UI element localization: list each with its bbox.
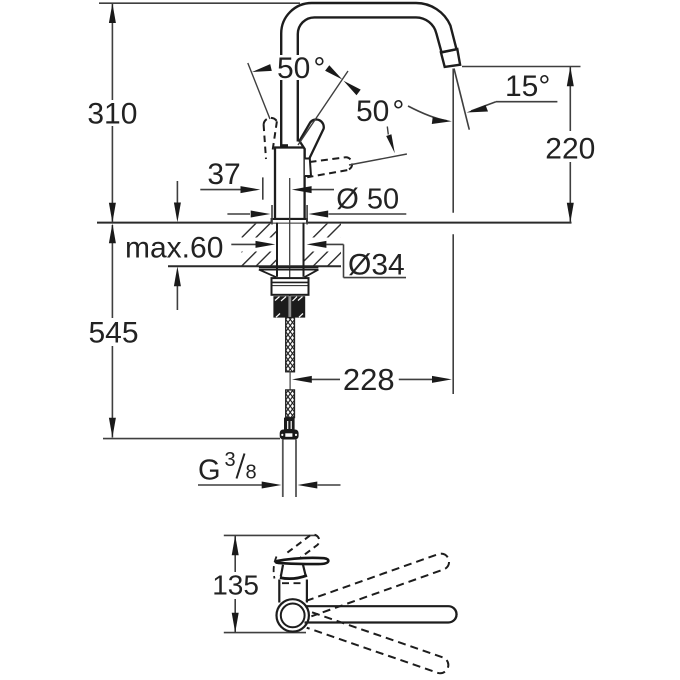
svg-text:310: 310 [87,98,137,131]
cartridge pin on body top [281,144,288,148]
counter top surface line [97,222,572,224]
svg-text:50°: 50° [277,52,325,85]
svg-text:220: 220 [545,133,595,166]
extension line at nozzle level (220) [462,66,581,68]
svg-text:Ø 50: Ø 50 [336,184,399,216]
horizontal lever centerline [349,154,407,165]
svg-text:Ø34: Ø34 [348,249,405,282]
svg-text:37: 37 [207,158,240,191]
plan extension line bottom (135) [224,632,306,634]
base flange on counter [272,219,307,223]
dimension 545 [111,225,113,438]
vertical reference line from nozzle tip [452,69,454,213]
dashed lever centerline [248,63,270,119]
lever handle dashed (up-left position) [264,118,277,159]
svg-text:8: 8 [246,462,257,484]
svg-text:G: G [198,455,221,487]
dimension 37 [200,189,241,191]
svg-text:228: 228 [343,362,395,397]
hose break centerline [289,372,291,390]
545 bottom extension line [103,438,280,440]
lever handle dashed (down position) [307,157,352,177]
dimension 310 [111,3,113,222]
hose crimp collar [284,418,295,430]
svg-text:50°: 50° [356,95,404,128]
plan spout arm dashed lower [307,612,451,675]
plan extension line top (135) [224,534,317,536]
15 degree slant line [454,69,469,130]
svg-text:545: 545 [88,317,138,350]
spout top extension line (310) [99,2,300,4]
dimension dia 50 [227,213,250,215]
plan dashed lever (raised) [287,535,319,561]
crossed arc arrowheads on solid lever centerline [325,65,342,79]
hatch clearing band for dia34 dimension [230,238,342,252]
svg-text:15°: 15° [505,70,550,103]
lever handle solid (up position) [299,120,323,163]
arc to vertical reference line [408,106,447,121]
threaded shank (black) [273,296,305,317]
svg-text:135: 135 [212,570,259,601]
plan spout arm dashed upper [306,551,451,616]
washer cone [259,270,276,278]
dimension 220 [569,67,571,223]
plan swivel circles [277,599,309,631]
arc arrowhead left (50-1) [252,64,272,72]
supply pipe G3/8 [282,440,284,498]
centerline of faucet body [289,178,291,296]
plan handle base [281,565,283,577]
spout tube outline [281,3,456,148]
braided hose segment 2 [286,390,295,418]
svg-text:max.60: max.60 [125,232,223,265]
counter section hatching [213,223,385,267]
svg-text:3: 3 [225,449,236,471]
plan dashed arc left of handle [274,557,277,579]
shank through counter [276,223,278,277]
mounting nut [272,278,309,295]
arrowhead to horizontal lever line [386,134,395,153]
dimension max.60 [176,181,178,203]
lever hub [305,159,311,177]
plan body [278,580,280,603]
washer plate under counter [259,266,319,268]
dimension dia 34 [231,243,256,245]
braided hose segment 1 [286,318,295,372]
plan solid lever plate [276,558,329,564]
counter bottom surface line [168,265,341,267]
solid lever centerline [298,71,348,145]
spout nozzle (mousseur) [441,49,460,67]
dimension 135 [234,535,236,632]
plan spout arm solid [305,606,457,622]
hose end nut [280,430,299,440]
G3/8 dimension arrows [198,484,262,486]
dimension 228 [312,378,341,380]
faucet body [275,148,305,220]
